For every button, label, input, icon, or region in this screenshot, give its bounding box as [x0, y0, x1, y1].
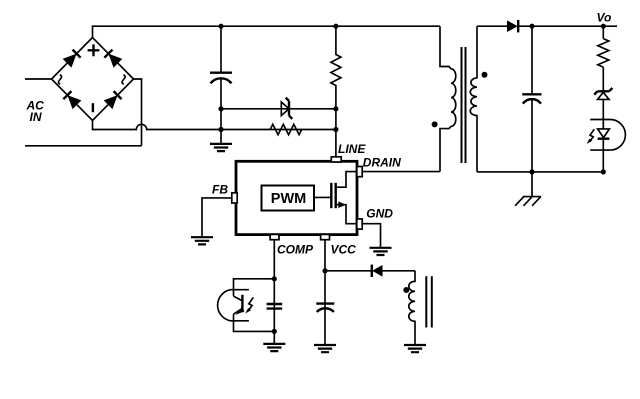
wire GND pin to ground — [362, 224, 380, 248]
node dot zener right — [333, 106, 338, 111]
wire bulk cap top lead — [220, 26, 222, 72]
svg-text:IN: IN — [30, 110, 42, 124]
pin COMP — [270, 234, 279, 239]
bridge AC tilde left — [58, 75, 61, 84]
node dot top rail at C1 — [218, 24, 223, 29]
svg-text:PWM: PWM — [271, 191, 306, 207]
pin LINE — [331, 157, 341, 162]
wire C1 bottom to ground with nodes — [220, 78, 222, 143]
node dot VCC — [322, 268, 327, 273]
wire R3 to zener — [602, 67, 604, 90]
optocoupler U2 LED diode — [598, 129, 610, 138]
mosfet Q1 source lead — [336, 205, 357, 224]
bridge minus mark — [92, 103, 94, 112]
wire AC input bottom lead — [25, 145, 142, 147]
wire gate from PWM — [314, 196, 330, 198]
pin VCC — [321, 234, 330, 239]
pin GND — [357, 219, 362, 229]
diode BR1-D3 lower-right — [104, 91, 122, 109]
wire from bridge right vertex down to AC bottom lead — [134, 79, 142, 146]
capacitor C2 output electrolytic — [522, 93, 541, 95]
wire DRAIN to primary — [362, 171, 440, 173]
optocoupler U2 LED light arrow — [590, 129, 595, 142]
node dot zener left — [218, 106, 223, 111]
PWM block — [262, 186, 315, 211]
resistor R2 horizontal — [270, 124, 301, 134]
capacitor C1 input bulk electrolytic — [210, 71, 232, 73]
ground IC GND — [370, 248, 392, 255]
optocoupler U2 phototransistor light arrow — [248, 297, 253, 310]
wire bridge negative output with hop over vertical wire — [93, 121, 336, 130]
wire COMP pin down — [273, 240, 275, 344]
transformer T1 secondary polarity dot — [482, 72, 488, 78]
wire zener feed — [221, 108, 336, 110]
capacitor C3 comp — [267, 304, 283, 309]
svg-text:VCC: VCC — [331, 242, 357, 256]
node dot secondary return at opto — [601, 169, 606, 174]
wire secondary return rail — [477, 171, 603, 173]
optocoupler U2 phototransistor body — [218, 290, 249, 321]
optocoupler U2 phototransistor base bar — [241, 295, 243, 312]
wire AC input top lead — [25, 78, 52, 80]
ground COMP — [263, 344, 285, 351]
diode D2 output rectifier — [507, 20, 518, 32]
bridge rectifier BR1 diamond — [52, 38, 134, 121]
svg-text:COMP: COMP — [277, 242, 314, 256]
svg-text:GND: GND — [366, 206, 393, 220]
zener Z1 — [281, 102, 289, 116]
svg-text:Vo: Vo — [597, 10, 612, 24]
resistor R3 output divider — [598, 39, 609, 68]
node dot secondary return at cap — [529, 169, 534, 174]
wire opto transistor bottom — [234, 314, 275, 331]
wire FB to ground — [202, 198, 232, 237]
ground aux winding — [404, 345, 426, 352]
node dot COMP bottom — [272, 329, 277, 334]
pin FB — [232, 193, 237, 203]
ground FB — [191, 237, 213, 244]
wire to chassis ground — [531, 172, 533, 197]
wire LED to return rail — [602, 139, 604, 172]
svg-text:FB: FB — [212, 182, 228, 196]
transformer T1 core — [462, 47, 466, 163]
pin DRAIN — [357, 167, 362, 177]
wire output cap top lead — [531, 26, 533, 94]
capacitor C4 vcc electrolytic — [316, 302, 334, 304]
wire output diode to Vo rail — [518, 25, 617, 27]
wire VCC pin down — [324, 240, 326, 345]
resistor R1 line sense vertical — [331, 26, 341, 157]
node dot lower wire left — [218, 127, 223, 132]
svg-text:LINE: LINE — [338, 142, 366, 156]
chassis ground secondary — [515, 197, 541, 206]
transformer T1 secondary winding — [470, 26, 477, 172]
optocoupler U2 LED body — [590, 120, 625, 151]
optocoupler U2 phototransistor collector — [234, 296, 243, 301]
transformer T1 primary polarity dot — [432, 121, 438, 127]
node dot Vo — [601, 24, 606, 29]
diode BR1-D2 upper-left — [63, 49, 81, 67]
wire zener to opto LED — [602, 99, 604, 128]
zener Z2 — [594, 88, 612, 95]
ground VCC cap — [314, 345, 336, 352]
optocoupler U2 phototransistor emitter arrow — [236, 307, 245, 315]
wire output cap bottom lead — [531, 99, 533, 172]
diode BR1-D1 lower-left — [63, 91, 81, 109]
aux winding L1 — [409, 271, 415, 345]
bridge plus mark — [88, 44, 100, 56]
transformer T1 primary winding — [440, 26, 456, 171]
svg-text:DRAIN: DRAIN — [363, 156, 401, 170]
mosfet Q1 gate bar — [330, 183, 332, 208]
aux winding core — [426, 276, 432, 327]
mosfet Q1 source arrow — [338, 201, 346, 208]
node dot COMP top — [272, 276, 277, 281]
optocoupler U2 phototransistor emitter — [234, 308, 243, 314]
aux winding polarity dot — [403, 287, 409, 293]
node dot output cap top — [529, 24, 534, 29]
wire secondary top to output diode — [477, 25, 507, 27]
wire opto transistor top — [234, 279, 275, 296]
wire top rail from bridge to transformer primary — [93, 26, 441, 37]
ground input bulk — [210, 144, 232, 151]
node dot lower wire right — [333, 127, 338, 132]
mosfet Q1 drain lead — [336, 172, 357, 188]
diode D3 vcc from aux — [372, 265, 382, 277]
IC U1 switcher body — [236, 161, 357, 234]
bridge AC tilde right — [122, 75, 125, 84]
wire VCC to aux diode — [325, 270, 415, 272]
diode BR1-D4 upper-right — [104, 49, 122, 67]
wire Vo rail down through divider — [602, 26, 604, 38]
node dot top rail at R1 — [333, 24, 338, 29]
mosfet Q1 channel bar — [335, 183, 337, 208]
